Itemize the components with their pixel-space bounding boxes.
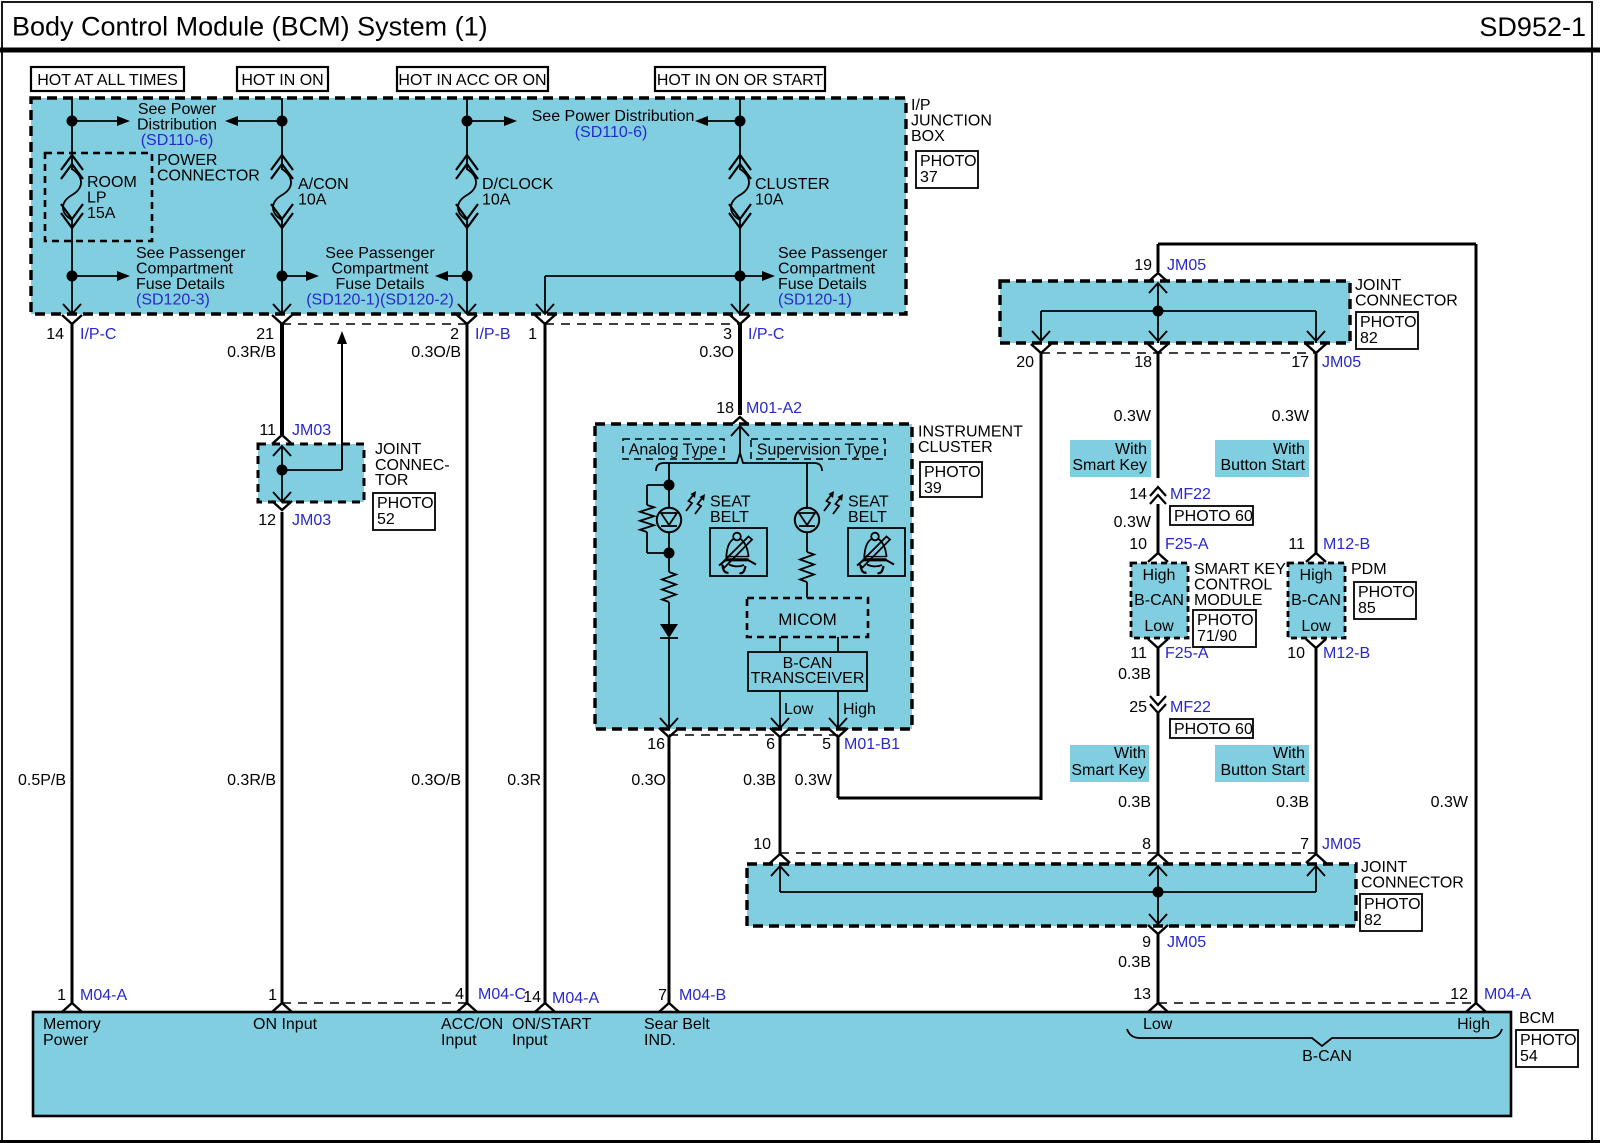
svg-text:12: 12 [258,512,276,529]
svg-text:12: 12 [1450,986,1468,1003]
svg-text:13: 13 [1133,986,1151,1003]
svg-text:Low: Low [1301,618,1331,635]
svg-text:PHOTO: PHOTO [1360,314,1417,331]
svg-text:Distribution: Distribution [137,117,217,134]
svg-text:11: 11 [259,422,276,439]
svg-text:PHOTO 60: PHOTO 60 [1174,508,1253,525]
svg-text:Low: Low [1143,1016,1173,1033]
svg-text:ON Input: ON Input [253,1016,318,1033]
svg-text:(SD120-1): (SD120-1) [778,292,852,309]
svg-text:POWER: POWER [157,152,217,169]
svg-text:MICOM: MICOM [778,610,837,629]
svg-text:(SD120-1)(SD120-2): (SD120-1)(SD120-2) [306,292,454,309]
svg-text:21: 21 [256,326,274,343]
svg-text:BCM: BCM [1519,1010,1555,1027]
svg-text:JM05: JM05 [1167,257,1206,274]
svg-text:0.3O: 0.3O [699,344,734,361]
svg-text:I/P-C: I/P-C [748,326,784,343]
svg-text:0.3R/B: 0.3R/B [227,772,276,789]
svg-text:B-CAN: B-CAN [1134,592,1184,609]
svg-text:Sear Belt: Sear Belt [644,1016,710,1033]
svg-text:JM05: JM05 [1322,836,1361,853]
svg-text:0.3B: 0.3B [743,772,776,789]
svg-text:10: 10 [1129,536,1147,553]
svg-text:High: High [843,701,876,718]
svg-text:High: High [1300,567,1333,584]
svg-text:10A: 10A [298,192,327,209]
svg-text:14: 14 [46,326,64,343]
svg-text:I/P-C: I/P-C [80,326,116,343]
svg-text:1: 1 [268,987,277,1004]
svg-text:JUNCTION: JUNCTION [911,113,992,130]
svg-text:MF22: MF22 [1170,699,1211,716]
svg-text:1: 1 [57,987,66,1004]
svg-text:M04-C: M04-C [478,986,526,1003]
svg-text:M12-B: M12-B [1323,536,1370,553]
svg-text:4: 4 [455,986,464,1003]
svg-text:Button Start: Button Start [1221,762,1306,779]
svg-text:11: 11 [1130,645,1147,662]
svg-text:LP: LP [87,190,107,207]
svg-text:SEAT: SEAT [848,494,889,511]
svg-text:PHOTO: PHOTO [377,495,434,512]
svg-text:MODULE: MODULE [1194,592,1262,609]
svg-text:HOT IN ON: HOT IN ON [241,72,323,89]
svg-text:I/P: I/P [911,97,931,114]
svg-text:F25-A: F25-A [1165,536,1209,553]
svg-text:JOINT: JOINT [1361,859,1407,876]
svg-text:PHOTO: PHOTO [1520,1032,1577,1049]
svg-text:HOT IN ON OR START: HOT IN ON OR START [657,72,823,89]
svg-text:0.3O: 0.3O [631,772,666,789]
svg-text:Memory: Memory [43,1016,101,1033]
svg-text:18: 18 [716,400,734,417]
svg-text:High: High [1457,1016,1490,1033]
svg-text:0.3W: 0.3W [795,772,833,789]
svg-text:10: 10 [753,836,771,853]
svg-text:CONNECTOR: CONNECTOR [1361,875,1464,892]
svg-text:Compartment: Compartment [136,261,233,278]
svg-text:PHOTO 60: PHOTO 60 [1174,721,1253,738]
svg-text:0.3W: 0.3W [1114,514,1152,531]
svg-text:CONTROL: CONTROL [1194,577,1272,594]
svg-text:D/CLOCK: D/CLOCK [482,176,553,193]
svg-text:9: 9 [1142,934,1151,951]
svg-text:(SD110-6): (SD110-6) [575,124,648,141]
svg-text:See Power Distribution: See Power Distribution [532,108,695,125]
svg-text:5: 5 [822,736,831,753]
svg-text:I/P-B: I/P-B [475,326,511,343]
svg-text:See Passenger: See Passenger [136,245,246,262]
svg-text:39: 39 [924,480,942,497]
svg-text:14: 14 [1129,486,1147,503]
svg-text:Fuse Details: Fuse Details [336,276,425,293]
svg-text:52: 52 [377,511,395,528]
svg-text:Smart Key: Smart Key [1071,762,1146,779]
svg-text:CLUSTER: CLUSTER [755,176,830,193]
svg-text:INSTRUMENT: INSTRUMENT [918,424,1023,441]
svg-text:Compartment: Compartment [332,261,429,278]
svg-text:PDM: PDM [1351,561,1387,578]
svg-text:JOINT: JOINT [1355,277,1401,294]
svg-text:Compartment: Compartment [778,261,875,278]
svg-text:TOR: TOR [375,472,408,489]
svg-text:Fuse Details: Fuse Details [136,276,225,293]
svg-text:2: 2 [450,326,459,343]
svg-text:10A: 10A [755,192,784,209]
svg-text:37: 37 [920,169,938,186]
svg-text:15A: 15A [87,205,116,222]
svg-text:JOINT: JOINT [375,441,421,458]
svg-text:14: 14 [523,989,541,1006]
svg-text:0.3R: 0.3R [507,772,541,789]
svg-text:PHOTO: PHOTO [1197,612,1254,629]
svg-text:See Power: See Power [138,101,217,118]
svg-text:18: 18 [1134,354,1152,371]
svg-text:HOT IN ACC OR ON: HOT IN ACC OR ON [398,72,546,89]
svg-text:CONNECTOR: CONNECTOR [157,168,260,185]
svg-text:B-CAN: B-CAN [1302,1048,1352,1065]
svg-text:0.3B: 0.3B [1118,954,1151,971]
svg-text:SEAT: SEAT [710,494,751,511]
svg-text:M01-A2: M01-A2 [746,400,802,417]
svg-text:16: 16 [647,736,665,753]
svg-text:See Passenger: See Passenger [325,245,435,262]
svg-text:IND.: IND. [644,1032,676,1049]
svg-text:M01-B1: M01-B1 [844,736,900,753]
svg-text:SD952-1: SD952-1 [1479,12,1586,42]
svg-text:Body Control Module (BCM) Syst: Body Control Module (BCM) System (1) [12,12,488,42]
svg-text:With: With [1114,745,1146,762]
svg-text:A/CON: A/CON [298,176,349,193]
svg-text:0.3R/B: 0.3R/B [227,344,276,361]
svg-text:Input: Input [441,1032,477,1049]
svg-text:Low: Low [784,701,814,718]
svg-text:With: With [1273,745,1305,762]
svg-text:Supervision Type: Supervision Type [757,442,880,459]
svg-text:17: 17 [1291,354,1309,371]
svg-text:JM03: JM03 [292,422,331,439]
svg-text:(SD110-6): (SD110-6) [141,132,214,149]
svg-text:See Passenger: See Passenger [778,245,888,262]
svg-text:PHOTO: PHOTO [924,464,981,481]
svg-text:82: 82 [1360,330,1378,347]
svg-text:JM05: JM05 [1322,354,1361,371]
svg-text:TRANSCEIVER: TRANSCEIVER [751,670,865,687]
svg-text:BELT: BELT [710,509,749,526]
svg-text:Power: Power [43,1032,89,1049]
svg-text:SMART KEY: SMART KEY [1194,561,1286,578]
svg-text:PHOTO: PHOTO [1364,896,1421,913]
svg-text:71/90: 71/90 [1197,628,1237,645]
svg-text:M04-A: M04-A [1484,986,1531,1003]
svg-text:(SD120-3): (SD120-3) [136,292,210,309]
svg-text:With: With [1115,441,1147,458]
svg-text:ON/START: ON/START [512,1016,592,1033]
svg-text:7: 7 [1300,836,1309,853]
svg-text:20: 20 [1016,354,1034,371]
svg-text:Analog Type: Analog Type [629,442,718,459]
svg-text:Smart Key: Smart Key [1072,457,1147,474]
svg-text:7: 7 [658,987,667,1004]
svg-text:25: 25 [1129,699,1147,716]
svg-text:19: 19 [1134,257,1152,274]
svg-text:0.3B: 0.3B [1118,794,1151,811]
svg-text:0.3O/B: 0.3O/B [411,772,461,789]
svg-text:Input: Input [512,1032,548,1049]
svg-text:0.3W: 0.3W [1114,408,1152,425]
svg-text:M04-B: M04-B [679,987,726,1004]
svg-text:BELT: BELT [848,509,887,526]
svg-text:0.3B: 0.3B [1276,794,1309,811]
svg-text:10A: 10A [482,192,511,209]
svg-text:6: 6 [766,736,775,753]
svg-text:54: 54 [1520,1048,1538,1065]
svg-text:Button Start: Button Start [1221,457,1306,474]
svg-text:JM05: JM05 [1167,934,1206,951]
svg-text:M04-A: M04-A [552,990,599,1007]
svg-text:With: With [1273,441,1305,458]
svg-text:CONNECTOR: CONNECTOR [1355,293,1458,310]
svg-text:M12-B: M12-B [1323,645,1370,662]
svg-text:ROOM: ROOM [87,174,137,191]
svg-text:Fuse Details: Fuse Details [778,276,867,293]
svg-text:3: 3 [723,326,732,343]
svg-text:CLUSTER: CLUSTER [918,439,993,456]
svg-text:11: 11 [1288,536,1305,553]
svg-text:MF22: MF22 [1170,486,1211,503]
svg-text:82: 82 [1364,912,1382,929]
svg-text:B-CAN: B-CAN [1291,592,1341,609]
svg-text:Low: Low [1144,618,1174,635]
svg-text:M04-A: M04-A [80,987,127,1004]
svg-text:ACC/ON: ACC/ON [441,1016,503,1033]
svg-text:High: High [1143,567,1176,584]
svg-text:PHOTO: PHOTO [920,153,977,170]
svg-text:HOT AT ALL TIMES: HOT AT ALL TIMES [37,72,178,89]
svg-text:0.3O/B: 0.3O/B [411,344,461,361]
svg-text:PHOTO: PHOTO [1358,584,1415,601]
svg-text:0.3B: 0.3B [1118,666,1151,683]
svg-text:1: 1 [528,326,537,343]
svg-text:10: 10 [1287,645,1305,662]
svg-text:0.3W: 0.3W [1431,794,1469,811]
svg-text:BOX: BOX [911,128,945,145]
svg-text:0.5P/B: 0.5P/B [18,772,66,789]
svg-text:8: 8 [1142,836,1151,853]
svg-text:85: 85 [1358,600,1376,617]
svg-text:0.3W: 0.3W [1272,408,1310,425]
svg-text:JM03: JM03 [292,512,331,529]
